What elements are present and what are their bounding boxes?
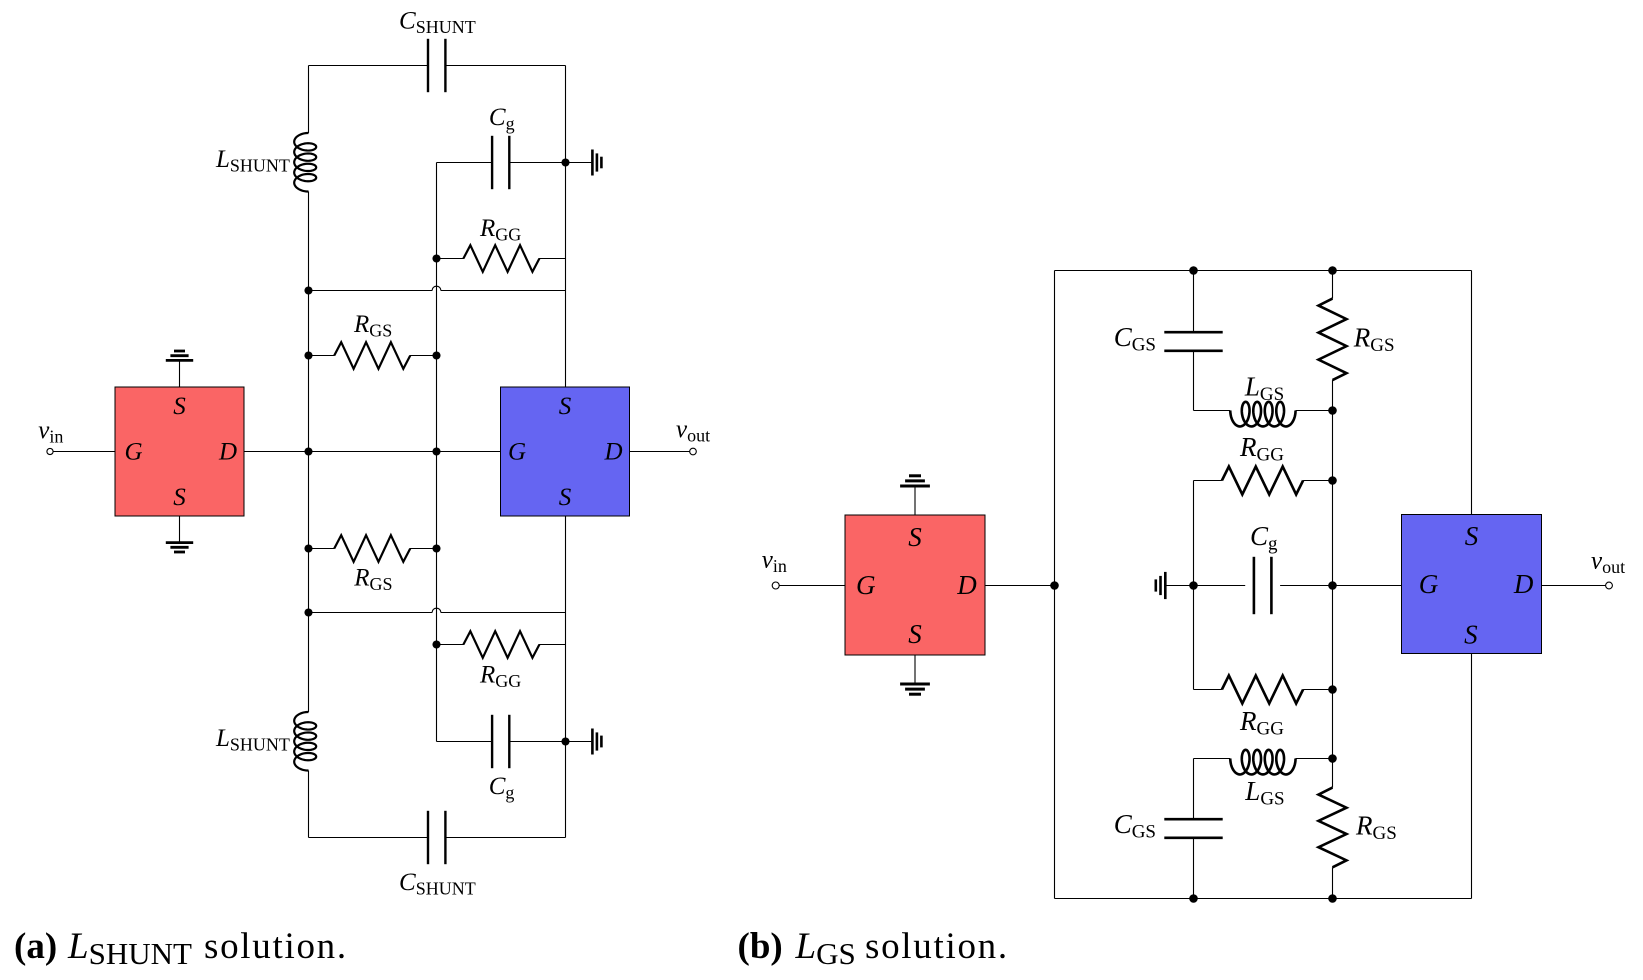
svg-text:(b): (b): [738, 926, 783, 967]
svg-text:G: G: [1419, 569, 1439, 599]
svg-text:G: G: [124, 439, 142, 466]
svg-text:D: D: [1513, 569, 1534, 599]
svg-text:(a): (a): [14, 926, 57, 967]
svg-text:G: G: [508, 439, 526, 466]
svg-text:D: D: [956, 570, 977, 600]
svg-text:G: G: [856, 570, 876, 600]
svg-text:S: S: [559, 393, 572, 420]
svg-text:D: D: [218, 439, 237, 466]
svg-text:solution.: solution.: [204, 926, 348, 967]
svg-text:S: S: [908, 619, 922, 649]
svg-text:S: S: [1464, 620, 1478, 650]
svg-text:S: S: [173, 393, 186, 420]
svg-text:D: D: [603, 439, 622, 466]
svg-text:S: S: [559, 484, 572, 511]
svg-text:S: S: [173, 484, 186, 511]
svg-text:solution.: solution.: [865, 926, 1009, 967]
svg-text:S: S: [1465, 521, 1479, 551]
svg-text:S: S: [908, 522, 922, 552]
